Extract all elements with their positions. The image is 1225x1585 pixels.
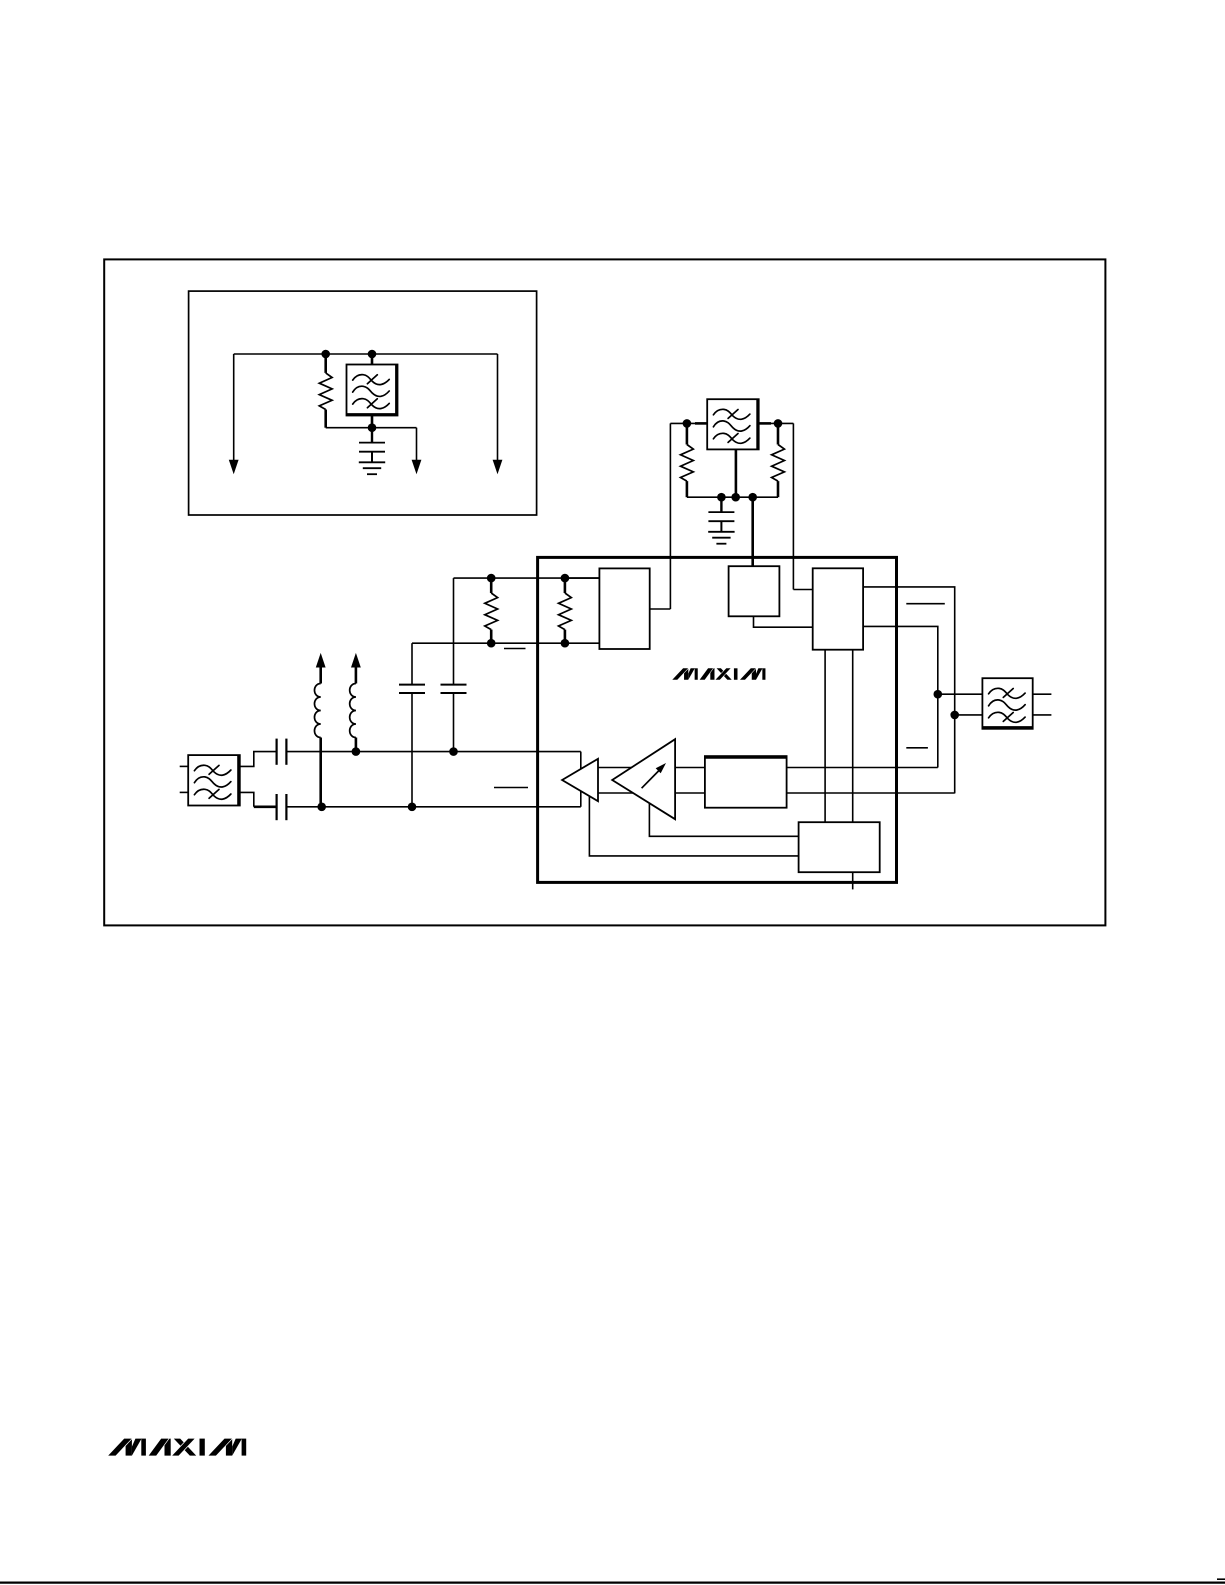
filter F1 (crystal filter) [347, 365, 398, 416]
wire RF plus [286, 751, 580, 753]
wire amp row upper [598, 767, 938, 769]
wire tank bottom rail [687, 496, 778, 498]
wire inset right arm [497, 354, 499, 461]
wire block1 left top [565, 577, 600, 579]
wire drop to block3 [793, 589, 812, 591]
wire inset mid arm [416, 428, 418, 461]
wire F3 to C1 [240, 752, 277, 767]
label dash right lower [906, 747, 928, 749]
wire limiter to rssi right [852, 650, 854, 823]
wire osc out [754, 616, 813, 627]
wire inset bottom [326, 427, 417, 429]
wire osc rail top [670, 422, 793, 424]
node dot L1 [317, 803, 326, 812]
inductor L2 [350, 653, 361, 752]
node dot bias1 [487, 574, 496, 583]
wire agc feedback 1 [649, 803, 798, 836]
filter F2 (oscillator filter) [695, 399, 771, 449]
wire block1 to drop [650, 608, 671, 610]
wire RF minus [286, 806, 580, 808]
filter F1 output lead [371, 416, 374, 428]
capacitor C1 [277, 739, 287, 765]
node dot bias4 [561, 639, 570, 648]
wire osc to IC [751, 497, 754, 566]
resistor tank left [681, 423, 694, 497]
filter F3 input stub top [180, 765, 189, 767]
capacitor C2 [277, 794, 287, 820]
label dash input [494, 787, 528, 789]
wire to F4 bottom [955, 714, 983, 716]
wire inset top rail [234, 353, 498, 355]
node dot C3 [408, 803, 417, 812]
node dot gnd tap [717, 493, 726, 502]
inset box [189, 291, 537, 515]
block demod U1e [705, 756, 787, 808]
wire inset left arm [233, 354, 235, 461]
inductor L1 [314, 653, 325, 807]
wire osc rail right drop [792, 423, 794, 589]
Maxim logo footer [108, 1439, 246, 1456]
block rssi U1d [799, 822, 880, 872]
footer rule [0, 1581, 1225, 1583]
capacitor C4 [441, 578, 467, 752]
Maxim logo in IC [672, 668, 765, 679]
filter F1 input lead [371, 354, 374, 365]
node dot C4 [449, 747, 458, 756]
wire rssi bottom lead [852, 872, 854, 889]
node dot L2 [352, 747, 361, 756]
block mixer U1a [599, 568, 649, 649]
filter F3 input stub bottom [180, 791, 189, 793]
wire amp row lower [598, 792, 955, 794]
node dot out B [950, 711, 959, 720]
capacitor to ground G2 [708, 497, 734, 544]
node dot inset A [321, 350, 330, 359]
node dot filter tap [731, 493, 740, 502]
capacitor C3 [399, 643, 425, 807]
outer frame [104, 259, 1105, 925]
filter F3 (input filter) [188, 755, 240, 805]
node dot tank left [683, 419, 692, 428]
node dot bias2 [487, 639, 496, 648]
node dot out A [934, 690, 943, 699]
wire limiter to rssi left [824, 650, 826, 823]
resistor tank right [772, 423, 785, 497]
resistor bias outer [485, 578, 498, 643]
wire bias rail bottom [412, 642, 599, 644]
block oscillator U1b [729, 566, 780, 616]
wire osc rail left drop [669, 423, 671, 609]
node dot osc tap [748, 493, 757, 502]
node dot inset B [368, 350, 377, 359]
wire limiter out B [863, 626, 938, 767]
amplifier T2 (vga) [612, 739, 675, 819]
resistor bias inner [559, 578, 572, 643]
buffer input edge [580, 752, 582, 807]
wire agc feedback 2 [589, 796, 798, 856]
wire bias rail top [454, 577, 600, 579]
filter F2 bottom lead [735, 449, 738, 497]
node dot bias3 [561, 574, 570, 583]
resistor inset [319, 354, 332, 428]
wire F3 to C2 [240, 792, 254, 806]
IC body MAX [538, 557, 897, 882]
block limiter U1c [813, 568, 863, 649]
amplifier T1 (buffer) [562, 759, 598, 801]
filter F4 (output filter) [982, 678, 1051, 729]
label dash right upper [906, 603, 945, 605]
label dash bias [504, 648, 526, 650]
capacitor to ground G1 [359, 428, 385, 475]
node dot tank right [774, 419, 783, 428]
wire limiter out A [863, 587, 955, 794]
node dot inset C [368, 423, 377, 432]
footer rule end tick [1217, 1578, 1225, 1580]
wire to F4 top [938, 693, 983, 695]
